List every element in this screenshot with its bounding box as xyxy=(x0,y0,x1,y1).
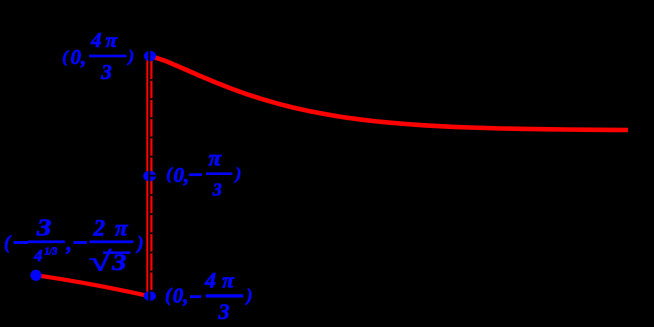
point (0, 4pi/3) xyxy=(144,51,156,62)
vertical segment on y-axis xyxy=(146,56,152,296)
y-axis (black, visible only over red/blue) xyxy=(148,0,150,327)
svg-text:3: 3 xyxy=(218,299,230,324)
label (0, 4pi/3) xyxy=(62,28,134,84)
svg-text:0,: 0, xyxy=(174,163,190,187)
label (0, -4pi/3) xyxy=(165,267,252,324)
point (0, -4pi/3) xyxy=(144,291,156,301)
svg-text:√: √ xyxy=(89,246,113,276)
svg-text:,: , xyxy=(66,231,73,256)
label (-3/4^(1/3), -2pi/sqrt(3)) xyxy=(4,216,144,277)
svg-text:2π: 2π xyxy=(92,216,137,241)
svg-text:3: 3 xyxy=(212,180,222,200)
curve f(x) left branch xyxy=(36,275,150,296)
y-axis tick marks xyxy=(149,79,156,292)
svg-text:3: 3 xyxy=(111,250,126,275)
svg-text:4: 4 xyxy=(33,246,43,265)
svg-text:π: π xyxy=(209,145,223,170)
label (0, -pi/3) xyxy=(166,145,241,199)
svg-text:): ) xyxy=(245,285,253,305)
curve f(x) right branch xyxy=(150,56,628,130)
point (-3/4^(1/3), -2pi/sqrt(3)) xyxy=(30,270,41,281)
svg-text:3: 3 xyxy=(100,60,112,84)
svg-text:): ) xyxy=(127,47,135,66)
svg-text:0,: 0, xyxy=(173,284,189,308)
svg-text:4π: 4π xyxy=(204,267,240,292)
svg-text:4π: 4π xyxy=(90,28,121,52)
svg-text:1/3: 1/3 xyxy=(45,247,58,258)
point (0, -pi/3) xyxy=(143,171,156,182)
svg-text:): ) xyxy=(135,234,143,254)
svg-text:): ) xyxy=(234,164,242,183)
svg-text:3: 3 xyxy=(36,216,52,242)
svg-text:0,: 0, xyxy=(71,45,87,69)
